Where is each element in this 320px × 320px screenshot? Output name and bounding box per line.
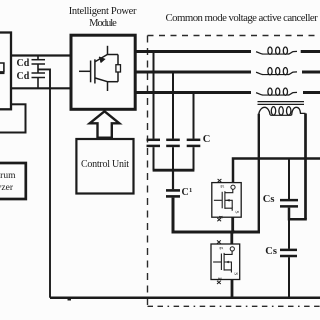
dash-dot canceller box: bottom edge <box>148 305 320 307</box>
capacitor C1 top stub <box>172 170 174 189</box>
Intelligent Power Module box <box>71 35 135 109</box>
transformer primary coil on W <box>256 88 297 95</box>
wire secondary left terminal down <box>258 114 260 232</box>
inductor coil U <box>256 47 297 54</box>
label C1 <box>182 188 189 198</box>
wire C bank common bus <box>153 169 195 172</box>
phase line V <box>136 71 251 74</box>
dashed canceller box: left edge <box>147 36 149 307</box>
junction dot <box>231 230 235 234</box>
label C <box>203 135 211 146</box>
capacitor Cd2 <box>32 72 46 74</box>
wire C1 to rail <box>173 198 260 232</box>
inductor coil V <box>256 68 297 75</box>
label Cd 2 <box>17 72 30 82</box>
mosfet Q1 terminal mark bottom <box>217 218 221 221</box>
label Cd 1 <box>17 59 30 69</box>
Control Unit box <box>76 139 133 194</box>
svg-text:g: g <box>220 185 226 188</box>
control unit arrow (hollow) <box>90 111 120 137</box>
capacitor Cs2 <box>280 249 297 252</box>
label Cs 1 <box>263 195 275 206</box>
capacitor Cs1 <box>280 199 298 202</box>
dashed canceller box: top edge <box>148 35 320 37</box>
capacitor Cs2 top stub <box>288 219 290 249</box>
wire tap phase U to C bank <box>153 52 155 139</box>
capacitor Cd1 <box>37 56 39 60</box>
wire bottom return <box>50 296 320 299</box>
capacitor bank C : cap 3 <box>187 139 201 142</box>
label Cs 2 <box>265 247 277 258</box>
transformer core <box>258 101 305 103</box>
spectrum analyzer box <box>0 163 26 199</box>
mosfet Q1 symbol <box>214 185 235 211</box>
label Analyzer (cut) <box>0 184 13 194</box>
label Intelligent Power Module <box>43 7 163 18</box>
junction tick <box>68 299 72 301</box>
svg-text:S: S <box>234 211 240 214</box>
svg-text:S: S <box>233 272 239 275</box>
mosfet Q1 terminal mark top <box>218 179 222 182</box>
wire Cs1 bottom to right bus <box>289 208 307 220</box>
label Spectrum (cut) <box>0 172 16 182</box>
wire Cs2 bottom stub <box>288 257 290 298</box>
wire secondary right terminal down <box>304 113 307 219</box>
phase line U <box>136 50 251 53</box>
capacitor C1 <box>166 189 180 192</box>
transformer secondary coil <box>259 107 306 116</box>
mosfet Q2 terminal mark top <box>217 240 221 243</box>
label Control Unit <box>76 160 133 170</box>
wire Q2 drain from rail <box>230 232 233 244</box>
capacitor bank C : cap 1 <box>147 139 161 142</box>
capacitor Cs1 top stub <box>288 159 290 200</box>
mosfet module Q2 box <box>211 244 240 280</box>
rectifier symbol fragment <box>0 63 4 72</box>
wire tap phase W to C bank <box>193 93 195 139</box>
mosfet module Q1 box <box>212 183 241 218</box>
wire Cd midpoint tap <box>38 69 50 297</box>
phase line W <box>136 91 251 94</box>
IGBT symbol inside IPM <box>79 46 121 91</box>
svg-text:g: g <box>219 247 225 250</box>
wire tap phase V to C bank <box>172 72 174 139</box>
box below rectifier <box>0 104 26 132</box>
rectifier box (cut at left edge) <box>0 33 11 110</box>
wire node line y158 <box>233 159 320 183</box>
mosfet Q2 terminal mark bottom <box>217 281 221 284</box>
DC bus - wire <box>11 87 70 89</box>
wire Q2 source to bottom <box>231 280 234 298</box>
capacitor bank C : cap 2 <box>166 139 180 142</box>
mosfet Q2 symbol <box>213 247 234 273</box>
DC bus + wire <box>11 54 70 56</box>
wire Q1 source to rail <box>231 217 234 232</box>
label common mode voltage active canceller <box>166 13 318 24</box>
